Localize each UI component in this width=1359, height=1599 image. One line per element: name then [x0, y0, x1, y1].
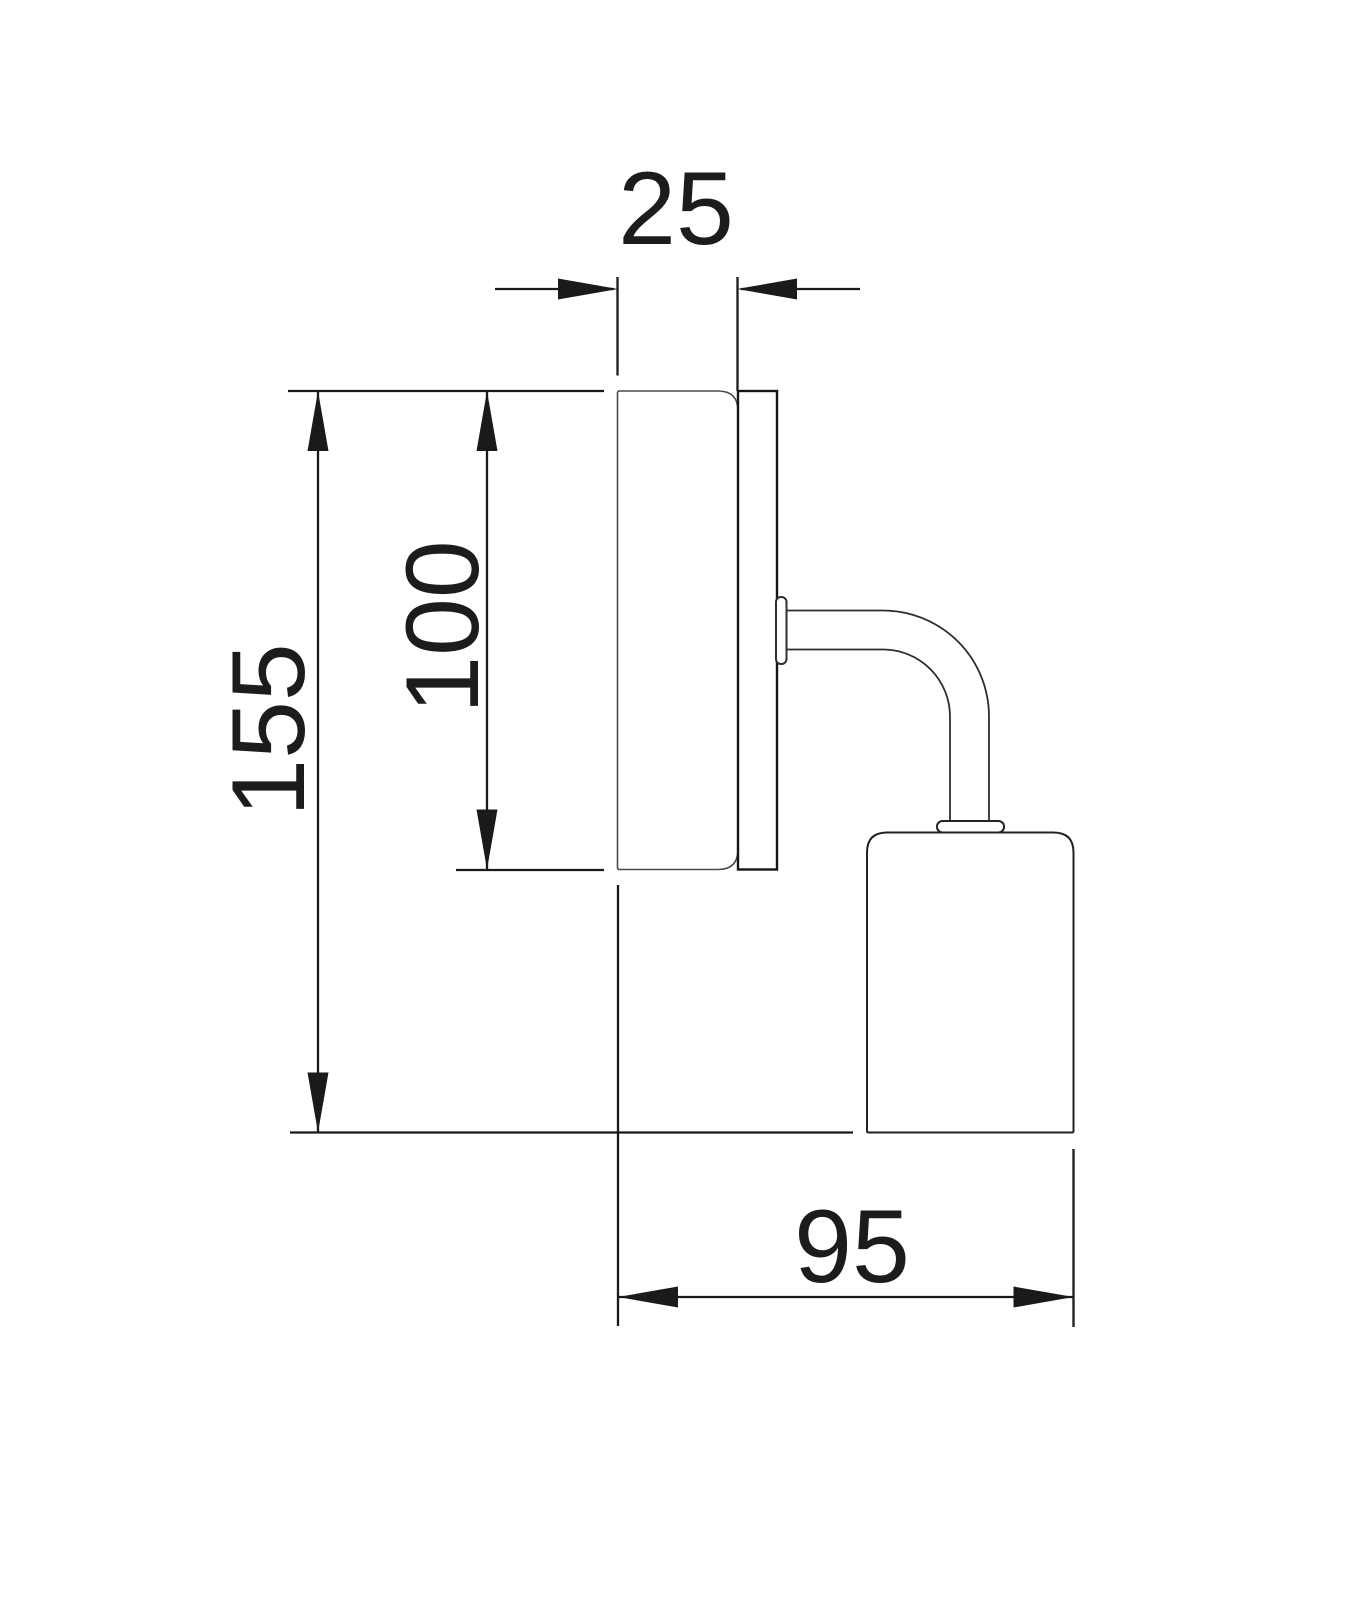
extension line bottom of 100 dim — [456, 869, 604, 871]
top extension line (shared by 155 and 100) — [288, 390, 604, 392]
wall plate — [738, 391, 777, 870]
lamp holder body — [867, 833, 1074, 1133]
dim 25 right extension line — [736, 277, 738, 391]
svg-text:95: 95 — [794, 1189, 910, 1305]
dim 155 top arrow — [308, 391, 329, 451]
svg-text:25: 25 — [618, 151, 734, 267]
wall baseline — [290, 1131, 853, 1133]
dim 100 line — [486, 391, 488, 870]
arm mount pill on plate — [776, 597, 787, 664]
dim 95 line — [618, 1296, 1074, 1298]
dim 100 top arrow — [477, 391, 498, 451]
dim 155 bottom arrow — [308, 1073, 329, 1133]
svg-text:155: 155 — [211, 643, 327, 817]
dim 155 line — [317, 391, 319, 1133]
dim 95 left extension line — [617, 885, 619, 1326]
dim 95 right extension line — [1072, 1149, 1074, 1327]
dim 25 left line — [495, 288, 614, 290]
arm tube (horizontal run + elbow + vertical drop) — [786, 611, 989, 823]
dim 100 bottom arrow — [477, 810, 498, 870]
svg-text:100: 100 — [385, 540, 501, 714]
backplate body (side view, rounded front corners) — [618, 391, 739, 870]
collar between tube and holder — [937, 821, 1004, 833]
dim 25 left arrow — [558, 279, 618, 300]
dim 95 left arrow — [618, 1287, 678, 1308]
dim 25 left extension line — [616, 277, 618, 376]
dim 25 right arrow — [737, 279, 797, 300]
dim 95 right arrow — [1014, 1287, 1074, 1308]
dim 25 right line — [741, 288, 860, 290]
